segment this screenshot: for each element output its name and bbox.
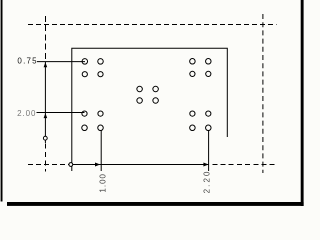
hole B3 top-right group	[190, 71, 195, 76]
hole E1 bottom-right group	[190, 111, 195, 116]
hole A3 top-left group	[82, 72, 87, 77]
leader line dimension 2.00	[37, 112, 85, 114]
arrowhead up at 0.75 leader	[44, 62, 48, 67]
datum centerline top horizontal	[28, 24, 277, 26]
leader line dimension 0.75	[37, 61, 85, 63]
datum centerline bottom horizontal left segment	[28, 164, 69, 166]
svg-text:0.75: 0.75	[17, 57, 37, 66]
arrowhead up at 2.00 leader	[44, 113, 48, 118]
hole D1 bottom-left group	[82, 111, 87, 116]
hole B4 top-right group	[206, 71, 211, 76]
datum centerline left vertical upper	[45, 16, 47, 59]
datum centerline left vertical lower	[45, 144, 47, 172]
hole C4 middle group	[153, 98, 159, 104]
bottom dimension line	[73, 164, 209, 166]
hole C2 middle group	[153, 86, 159, 92]
hole C3 middle group	[137, 98, 143, 104]
arrowhead dimension 1.00	[95, 163, 100, 167]
frame bottom bar	[7, 202, 304, 206]
part outline (left, top, right edges)	[72, 48, 228, 171]
hole B1 top-right group	[190, 59, 196, 65]
extension line hole column x=208.6	[208, 131, 210, 172]
arrowhead dimension 2.20	[203, 163, 208, 167]
hole A4 top-left group	[98, 72, 103, 77]
hole E3 bottom-right group	[190, 125, 196, 131]
frame left border	[1, 0, 3, 202]
hole D4 bottom-left group	[98, 125, 104, 131]
vertical dimension line between leaders	[44, 62, 46, 143]
hole D3 bottom-left group	[82, 125, 88, 131]
extension line hole column x=101	[100, 131, 102, 172]
hole B2 top-right group	[206, 59, 212, 65]
svg-text:2.00: 2.00	[17, 109, 36, 118]
hole E4 bottom-right group	[206, 125, 212, 131]
dimension baseline origin node	[69, 163, 73, 167]
hole E2 bottom-right group	[206, 111, 211, 116]
hole A2 top-left group	[98, 59, 104, 65]
node marker circle on dimension line	[43, 136, 47, 140]
hole C1 middle group	[137, 86, 143, 92]
frame right border	[301, 0, 304, 206]
datum centerline right vertical	[262, 14, 264, 173]
hole D2 bottom-left group	[98, 111, 103, 116]
hole A1 top-left group	[82, 59, 88, 65]
svg-text:2.20: 2.20	[203, 169, 212, 193]
svg-text:1.00: 1.00	[99, 173, 108, 193]
datum centerline bottom horizontal right segment	[212, 164, 275, 166]
